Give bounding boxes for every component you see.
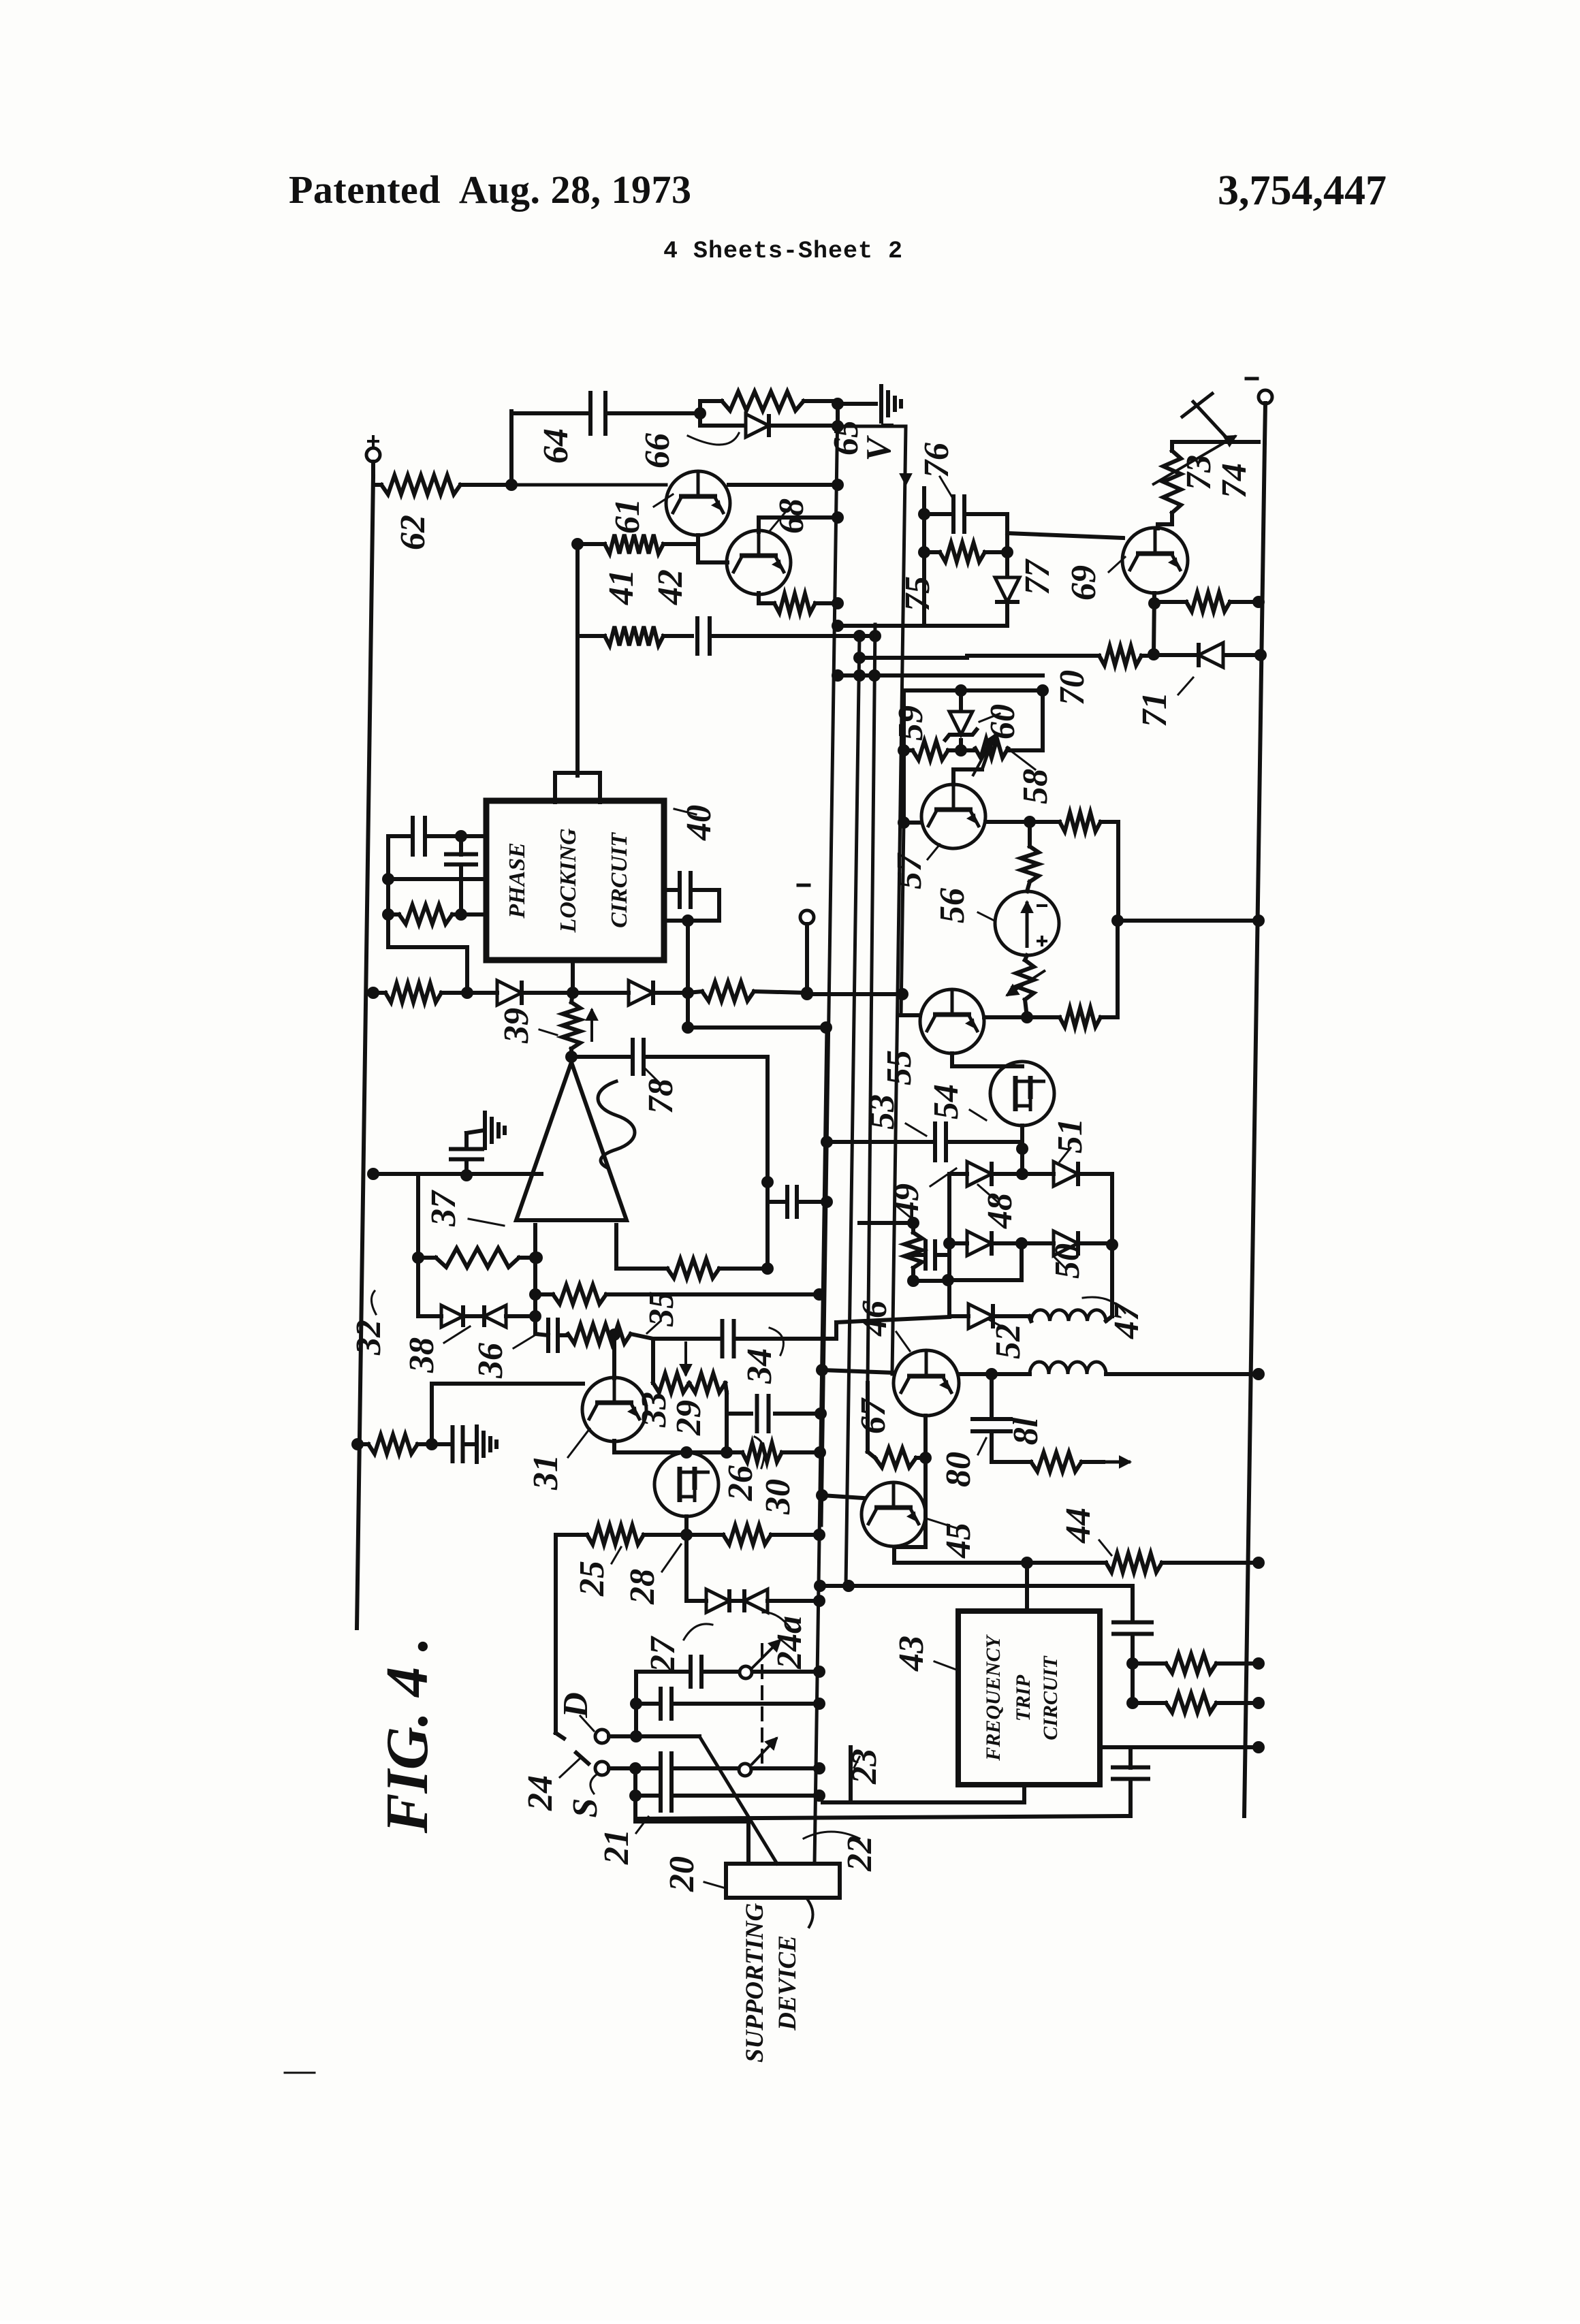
potentiometer 58 (975, 739, 1008, 758)
capacitor 34b (757, 1396, 769, 1431)
wire row 2133 (614, 1450, 742, 1454)
wire 53 row (827, 1140, 935, 1144)
resistor 81 (1031, 1452, 1081, 1471)
resistor 57r (1060, 812, 1101, 831)
wire riser to cap 64 (509, 411, 513, 485)
resistor 43b (1166, 1693, 1216, 1713)
svg-text:35: 35 (642, 1291, 681, 1327)
ground 65 (881, 386, 901, 421)
wire row 919 (838, 624, 1007, 628)
wire row 1460 (807, 992, 902, 996)
resistor 35 (568, 1324, 631, 1343)
wire plc row 1291 (388, 877, 486, 881)
wire 55 row 1494 (984, 1015, 1027, 1019)
wire 51 right leg (1110, 1174, 1114, 1245)
wire bus V2 (846, 636, 859, 1586)
svg-text:45: 45 (939, 1523, 978, 1559)
switch mark 74 (1193, 402, 1227, 439)
capacitor 34a (723, 1321, 734, 1356)
svg-text:58: 58 (1016, 769, 1055, 804)
svg-text:62: 62 (394, 515, 432, 550)
svg-text:29: 29 (669, 1400, 708, 1436)
wire right box 55 (1116, 921, 1120, 1017)
resistor 39r (702, 982, 754, 1001)
svg-text:53: 53 (863, 1094, 902, 1130)
terminal mid (800, 910, 814, 924)
svg-text:3,754,447: 3,754,447 (1218, 168, 1387, 214)
svg-text:67: 67 (854, 1397, 893, 1434)
resistor 72 (1186, 592, 1230, 611)
wire 69 base (1007, 533, 1123, 538)
svg-text:FIG. 4 .: FIG. 4 . (375, 1637, 441, 1834)
ground 32g (477, 1427, 496, 1462)
resistor 59b (913, 741, 948, 760)
svg-text:40: 40 (680, 805, 718, 841)
wire node B risers (698, 401, 702, 426)
squiggle 78 (598, 1081, 635, 1167)
svg-text:S: S (566, 1798, 605, 1818)
svg-text:34: 34 (740, 1348, 779, 1384)
wire 55 emitter (950, 1053, 954, 1066)
svg-text:22: 22 (840, 1836, 879, 1872)
svg-text:43: 43 (892, 1636, 931, 1672)
resistor 75 (940, 543, 985, 562)
svg-text:30: 30 (759, 1479, 797, 1515)
capacitor 78 (633, 1040, 644, 1074)
capacitor 40r (680, 873, 691, 907)
resistor 44 (1106, 1553, 1162, 1572)
svg-text:38: 38 (402, 1337, 441, 1373)
wire D node (609, 1734, 636, 1738)
wire riser 41-42 (575, 544, 580, 776)
wire 42 row (578, 634, 605, 638)
capacitor 21b (661, 1753, 671, 1783)
svg-text:70: 70 (1053, 670, 1092, 705)
capacitor 64 (590, 393, 605, 434)
switch contact 24b (739, 1764, 751, 1776)
wire 75 net left (922, 488, 926, 626)
wire row 2018 (960, 1372, 992, 1376)
diode 77 (995, 577, 1020, 602)
wire plc bottom (388, 945, 467, 949)
wire row 2329 (820, 1584, 1133, 1588)
wire right bus (1265, 403, 1265, 443)
switch arm 22 (699, 1736, 777, 1864)
transistor 69 (1122, 528, 1188, 593)
resistor 68e (774, 594, 815, 613)
svg-text:80: 80 (939, 1452, 978, 1487)
wire 68 base (698, 560, 727, 564)
svg-text:V: V (859, 434, 898, 461)
wire 57 right (985, 820, 1030, 824)
svg-text:48: 48 (981, 1193, 1020, 1229)
svg-text:52: 52 (989, 1324, 1028, 1359)
capacitor 21a (661, 1689, 671, 1719)
svg-text:25: 25 (573, 1561, 612, 1597)
wire 40 pin (575, 773, 580, 776)
resistor plc (399, 905, 452, 924)
zener 59 (959, 690, 963, 710)
wire plc left net outline (386, 836, 390, 947)
svg-text:76: 76 (917, 443, 956, 478)
svg-text:73: 73 (1180, 455, 1218, 490)
diode 38d (484, 1305, 506, 1327)
wire sw corner (634, 1672, 638, 1736)
terminal minus supply (1259, 390, 1272, 404)
svg-text:28: 28 (623, 1569, 662, 1605)
diode 48 (967, 1231, 992, 1256)
svg-text:41: 41 (602, 569, 641, 605)
svg-text:49: 49 (887, 1183, 926, 1220)
transistor 45 (862, 1482, 926, 1546)
capacitor 21c (661, 1781, 671, 1811)
wire left bus (357, 477, 373, 1628)
resistor 37 (436, 1248, 519, 1267)
block 20 supporting device (726, 1864, 840, 1898)
svg-text:FREQUENCY: FREQUENCY (982, 1634, 1005, 1762)
wire 69 emitter (1154, 593, 1154, 655)
wire 48 down (1020, 1243, 1024, 1280)
current source 56 (995, 891, 1059, 955)
svg-text:60: 60 (983, 704, 1022, 739)
wire 55 base (901, 823, 904, 1015)
resistor 41 (605, 535, 663, 554)
wire cap42 right (710, 634, 875, 638)
wire row 2667 (636, 1816, 1131, 1819)
resistor 30 (742, 1443, 782, 1462)
svg-text:74: 74 (1215, 463, 1254, 498)
linkage dashed 24 (761, 1644, 763, 1770)
wire 43 bottom pin (1022, 1785, 1026, 1802)
svg-text:61: 61 (608, 498, 647, 534)
transistor 26 fet (654, 1452, 718, 1516)
wire 41 row (578, 542, 605, 546)
potentiometer 73 (1163, 451, 1181, 513)
svg-text:PHASE: PHASE (505, 842, 530, 919)
small mark (285, 2072, 315, 2074)
capacitor plc2 (446, 855, 476, 865)
wire 31 emitter (612, 1441, 616, 1452)
wire row 1898 (553, 1285, 606, 1304)
wire 26 bottom (684, 1516, 689, 1535)
svg-text:56: 56 (933, 888, 972, 923)
svg-text:69: 69 (1064, 565, 1103, 601)
wire 59 box left (902, 690, 906, 823)
wire 31 collector (612, 1334, 616, 1378)
svg-text:42: 42 (651, 569, 690, 605)
op-amp 37 triangle (516, 1062, 627, 1220)
svg-text:77: 77 (1018, 558, 1057, 595)
wire cap64 to node B (609, 411, 700, 415)
wire 46 emitter (923, 1416, 928, 1547)
svg-text:32: 32 (349, 1320, 388, 1356)
capacitor 47l (926, 1241, 935, 1269)
capacitor 32c (453, 1427, 463, 1461)
wire -V rail (838, 425, 906, 428)
diode 52b (968, 1304, 993, 1328)
svg-text:54: 54 (927, 1084, 966, 1119)
transistor 61 (666, 471, 730, 535)
svg-text:26: 26 (721, 1465, 760, 1501)
wire 49 left leg (947, 1174, 951, 1316)
potentiometer 33 (653, 1373, 689, 1392)
svg-text:TRIP: TRIP (1012, 1674, 1034, 1721)
wire opamp apex node (565, 1051, 578, 1063)
wire bus V1 (821, 404, 838, 1525)
capacitor 80 (973, 1419, 1011, 1431)
diode 27b (744, 1589, 768, 1612)
wire 57 base (904, 821, 921, 825)
block 40 phase locking circuit (486, 801, 664, 960)
wire 73 to 69 (1170, 513, 1174, 524)
wire 45 emitter (894, 1561, 1027, 1565)
wire 47 right leg (1110, 1245, 1114, 1316)
coil 47 (1031, 1310, 1106, 1321)
capacitor 53 (935, 1124, 946, 1160)
wire S node (609, 1766, 635, 1770)
wire freq top (1025, 1563, 1029, 1611)
svg-text:21: 21 (597, 1829, 636, 1865)
wire 72 left (1155, 600, 1186, 604)
wire 77 riser (1005, 514, 1009, 576)
arrow 33w (684, 1341, 687, 1375)
capacitor 78b (787, 1187, 797, 1217)
transistor 46 (894, 1350, 959, 1416)
wire row 1881 (913, 1279, 948, 1283)
capacitor plc1 (413, 818, 425, 855)
wire 59 box right (1041, 690, 1045, 750)
resistor 47l (904, 1232, 922, 1268)
diode 66 (700, 424, 742, 428)
svg-text:LOCKING: LOCKING (556, 828, 581, 933)
wire row 966 left (859, 656, 967, 660)
resistor 38row (385, 983, 441, 1002)
wire 78 corner (765, 1057, 770, 1182)
leader 20 squiggle (808, 1900, 813, 1927)
wire 27 riser (684, 1535, 689, 1601)
resistor 62 (381, 475, 460, 494)
wire node A (373, 483, 381, 487)
svg-text:24: 24 (521, 1775, 560, 1811)
wire 31 base (432, 1382, 583, 1386)
svg-text:37: 37 (424, 1190, 463, 1227)
resistor 29r (689, 1373, 725, 1392)
wire 34a corner (834, 1322, 838, 1339)
transistor 31 (582, 1378, 646, 1442)
wire r66 right (700, 399, 722, 403)
svg-text:33: 33 (635, 1392, 674, 1428)
wire 45 base (822, 1495, 864, 1498)
svg-text:CIRCUIT: CIRCUIT (1039, 1655, 1062, 1740)
svg-text:50: 50 (1048, 1243, 1087, 1279)
svg-text:D: D (556, 1692, 595, 1719)
wire S leg (633, 1768, 637, 1821)
resistor 42 (605, 626, 663, 646)
transistor 68 (727, 530, 791, 594)
wire 46 base (822, 1370, 894, 1373)
wire row 1724 (373, 1172, 541, 1176)
potentiometer 56b (1016, 960, 1034, 1000)
wire 72 right (1230, 600, 1259, 604)
wire 51 riser (1020, 1149, 1024, 1174)
wire 35 corner (651, 1339, 655, 1383)
wire 40 bottom pin (571, 960, 575, 993)
block 40 small box (555, 773, 600, 802)
wire bus V0 (815, 1028, 827, 1864)
wire to ground 65 (836, 401, 840, 426)
svg-text:8l: 8l (1007, 1417, 1045, 1445)
wire 70 row (967, 654, 1099, 658)
wire 61 base (511, 483, 666, 487)
resistor 26r (723, 1525, 771, 1544)
wire 77 bottom (1005, 603, 1009, 626)
wire 57 corner (1116, 822, 1120, 921)
terminal plus supply (366, 448, 380, 462)
wire 23 L (849, 1747, 853, 1800)
svg-text:36: 36 (471, 1343, 510, 1379)
wire 78 corner2 (765, 1182, 770, 1269)
svg-text:57: 57 (890, 853, 929, 889)
wire row 1796 (859, 1221, 913, 1225)
wire 25 left leg (554, 1535, 558, 1733)
diode 38b (629, 981, 653, 1005)
terminal S (595, 1762, 609, 1775)
svg-text:27: 27 (644, 1636, 682, 1673)
svg-text:66: 66 (638, 433, 677, 468)
arrow 39 (590, 1009, 593, 1042)
resistor 39 (563, 1002, 580, 1049)
resistor 67 (875, 1448, 916, 1467)
svg-text:39: 39 (497, 1008, 536, 1044)
transistor 57 (921, 784, 985, 848)
wire sw bottom (635, 1819, 748, 1824)
wire 67 to V3 (866, 1383, 870, 1452)
svg-text:CIRCUIT: CIRCUIT (607, 832, 632, 928)
svg-text:75: 75 (898, 576, 937, 611)
wire row 1352 (1118, 919, 1259, 923)
wire 68 emitter (757, 593, 761, 603)
resistor 32 (368, 1435, 417, 1454)
wire row 2566 (1100, 1745, 1259, 1749)
wire row 1863 (667, 1259, 719, 1278)
svg-text:44: 44 (1059, 1508, 1098, 1544)
wire row 992 (838, 673, 1043, 678)
diode 50 (1054, 1231, 1078, 1256)
wire opamp inputs (533, 1225, 537, 1334)
svg-text:4 Sheets-Sheet 2: 4 Sheets-Sheet 2 (663, 238, 903, 265)
transistor 54 fet (990, 1062, 1054, 1126)
svg-text:78: 78 (642, 1079, 680, 1114)
arrow -V (905, 453, 906, 485)
wire 54 bottom (1020, 1126, 1024, 1141)
wire 57 collector (951, 769, 955, 784)
wire bus V3 (868, 624, 875, 1383)
transistor 55 (920, 989, 984, 1053)
ground 37g (485, 1113, 505, 1148)
diode 38a (497, 981, 522, 1005)
coil 52 (1030, 1362, 1106, 1374)
capacitor 76 (953, 496, 964, 532)
arrow 81 out (1103, 1461, 1131, 1464)
diode 71 (1199, 643, 1223, 667)
resistor 43a (1166, 1654, 1216, 1673)
wire 59 box top (904, 688, 1043, 693)
svg-text:55: 55 (880, 1050, 919, 1085)
switch contact 24a (740, 1666, 752, 1678)
wire pot73 top (1172, 440, 1259, 444)
block 43 frequency trip circuit (958, 1611, 1100, 1785)
diode 27a (706, 1589, 729, 1612)
resistor 56t (1021, 846, 1039, 882)
diode 51 (1054, 1162, 1078, 1186)
capacitor 27c (691, 1657, 701, 1687)
diode 49 (967, 1162, 992, 1186)
capacitor 43c (1113, 1623, 1152, 1634)
capacitor 43d (1113, 1768, 1148, 1779)
wire 43c down (1131, 1634, 1135, 1703)
svg-text:71: 71 (1135, 692, 1174, 727)
svg-text:Patented Aug. 28, 1973: Patented Aug. 28, 1973 (289, 168, 692, 212)
resistor 25 (587, 1525, 644, 1544)
capacitor 36 (548, 1320, 558, 1351)
svg-text:SUPPORTING: SUPPORTING (741, 1903, 769, 2063)
svg-text:31: 31 (526, 1454, 565, 1491)
svg-text:DEVICE: DEVICE (774, 1935, 802, 2031)
resistor 70 (1099, 646, 1141, 665)
wire 40 right pin (664, 919, 719, 923)
wire row 1509 (688, 1025, 826, 1030)
wire 68 collector (757, 518, 761, 532)
wire 38 left leg (416, 1174, 420, 1316)
terminal D (595, 1730, 609, 1743)
capacitor 37g (451, 1149, 482, 1160)
resistor 55r (1060, 1008, 1101, 1027)
capacitor 42 (697, 618, 710, 654)
svg-text:64: 64 (537, 428, 575, 464)
svg-text:20: 20 (663, 1856, 701, 1892)
resistor 66 (722, 392, 804, 411)
diode 38c (441, 1305, 463, 1327)
